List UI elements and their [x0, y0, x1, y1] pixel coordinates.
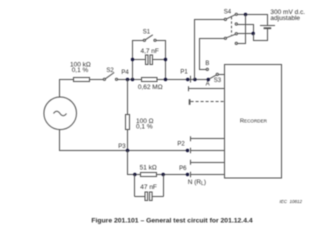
svg-text:47 nF: 47 nF — [140, 184, 157, 191]
AC source G1 — [44, 97, 77, 130]
junction dot C1 left — [131, 58, 134, 61]
wire P3 down to 51k branch — [128, 151, 141, 175]
svg-text:0,1 %: 0,1 % — [136, 124, 153, 131]
P6 terminal tick — [190, 172, 192, 178]
node P4 second junction — [131, 78, 134, 81]
resistor R4 51 kOhm — [141, 173, 157, 177]
junction dot c2/c3/battery — [252, 32, 255, 35]
wire P2 into recorder — [191, 150, 225, 152]
switch S4 bottom pole — [224, 37, 226, 39]
svg-text:P6: P6 — [179, 166, 187, 172]
wire S4 bottom pole to contact B — [200, 39, 225, 70]
wire 100 Ohm down to P3 — [127, 130, 129, 151]
recorder box — [225, 65, 282, 179]
switch S1 — [143, 39, 145, 41]
wire c2 down to battery bottom node — [237, 25, 253, 34]
svg-text:P2: P2 — [177, 141, 185, 147]
svg-text:Figure 201.101 – General test: Figure 201.101 – General test circuit fo… — [91, 217, 253, 224]
P2 terminal tick — [190, 148, 192, 154]
node P3 — [126, 149, 129, 152]
capacitor C2 47 nF branch left wire — [134, 175, 136, 197]
junction dot right vertical on main wire — [164, 78, 167, 81]
S4 contact c4 — [235, 42, 237, 44]
svg-text:IEC 10812: IEC 10812 — [279, 199, 302, 204]
svg-text:0,1 %: 0,1 % — [72, 67, 89, 74]
resistor R3 100 Ohm 0,1% — [126, 115, 130, 130]
svg-text:B: B — [205, 61, 209, 67]
switch S4 top pole — [224, 18, 226, 20]
wire S2 to P4 and 0,62M — [118, 79, 142, 81]
switch S2 — [103, 78, 105, 80]
wire P4 down to 100 Ohm — [127, 80, 129, 115]
svg-text:S4: S4 — [224, 9, 232, 15]
node P2 — [186, 149, 189, 152]
svg-text:A: A — [206, 81, 210, 87]
recorder terminal line A — [189, 88, 225, 90]
wire capacitor C1 to right vertical — [153, 59, 166, 61]
junction dot 47nF left — [133, 173, 136, 176]
battery BT1 300 mV plates — [260, 25, 275, 27]
node P4 — [126, 78, 129, 81]
S4 contact c3 — [235, 33, 237, 35]
wire P1 up to S4 top pole — [195, 20, 225, 80]
wire source top to 100k — [60, 80, 74, 98]
S1 branch left vertical wire — [133, 41, 144, 80]
wire to capacitor C1 4,7 nF — [133, 59, 146, 61]
recorder terminal line 4 — [191, 162, 225, 164]
node P6 — [186, 173, 189, 176]
recorder terminal line 3 — [191, 138, 225, 140]
junction dot 47nF right — [162, 173, 165, 176]
wire 51k to P6 — [157, 174, 188, 176]
switch S3 — [209, 75, 216, 79]
S1 branch right side wire — [156, 41, 165, 80]
wire 0,62M to A — [157, 79, 208, 81]
svg-text:adjustable: adjustable — [270, 15, 300, 22]
junction dot S4 feed — [193, 78, 196, 81]
S4 contact c1 — [235, 13, 237, 15]
terminal bold tick dashed line — [189, 99, 191, 105]
svg-text:51 kΩ: 51 kΩ — [140, 165, 157, 172]
recorder dashed control line — [191, 101, 225, 103]
svg-text:P3: P3 — [118, 144, 126, 150]
node P1 — [186, 78, 189, 81]
wire C2 right plate out — [152, 196, 164, 198]
svg-text:N (RL): N (RL) — [188, 179, 206, 187]
svg-text:P4: P4 — [121, 70, 129, 76]
S4 coupling dashed link — [231, 17, 233, 35]
wire P6 into recorder — [191, 174, 225, 176]
svg-text:S3: S3 — [214, 78, 222, 84]
terminal tick line 4 — [190, 160, 192, 165]
junction dot C1 right — [164, 58, 167, 61]
node A — [207, 78, 210, 81]
capacitor C1 4,7 nF plates — [146, 55, 149, 65]
wire to C2 left plate — [135, 196, 146, 198]
svg-text:S1: S1 — [143, 30, 151, 36]
wire c1 to battery top — [237, 15, 267, 26]
terminal tick line A — [188, 86, 190, 91]
contact B — [206, 68, 208, 70]
capacitor C2 47 nF plates — [145, 192, 148, 201]
svg-text:0,62 MΩ: 0,62 MΩ — [138, 84, 163, 91]
svg-text:S2: S2 — [106, 68, 114, 74]
capacitor C2 branch right wire — [163, 175, 165, 197]
svg-text:4,7 nF: 4,7 nF — [140, 48, 158, 55]
wire c4 up to top wire — [237, 15, 245, 44]
terminal tick line 3 — [190, 136, 192, 141]
resistor R1 100 kOhm 0,1% — [74, 78, 90, 82]
wire 100k to S2 — [90, 79, 104, 81]
resistor R2 0,62 MOhm — [142, 78, 158, 82]
svg-text:P1: P1 — [180, 70, 188, 76]
wire c3 to battery bottom node — [237, 33, 253, 35]
wire battery bottom loop — [254, 29, 268, 41]
wire source bottom to P2 — [60, 130, 188, 151]
junction dot c1/c4 — [244, 13, 247, 16]
S4 contact c2 — [235, 23, 237, 25]
P1 terminal tick — [190, 76, 192, 83]
